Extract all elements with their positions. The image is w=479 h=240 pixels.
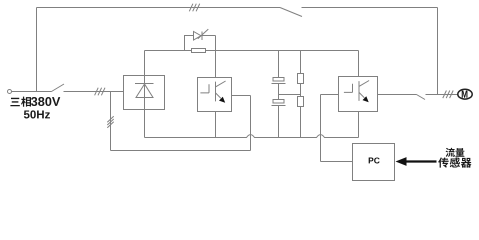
wire: capacitor branch top — [278, 51, 280, 78]
wire: rectifier bottom drop to DC- rail — [144, 110, 146, 138]
wire: midpoint tie between branches — [279, 94, 301, 96]
rectifier U1 diode symbol — [135, 76, 154, 110]
wire: resistor branch top — [300, 51, 302, 74]
wire: rectifier top riser to DC+ rail — [144, 51, 146, 76]
IGBT symbol V2 — [344, 84, 353, 93]
wire: switch to rectifier input — [64, 91, 124, 93]
wire: capacitor branch bottom — [278, 106, 280, 138]
terminal: three-phase source — [8, 90, 12, 94]
IGBT symbol V1 — [200, 84, 209, 93]
wire: bypass top rail right — [302, 7, 438, 9]
wire: V1 bottom to DC- rail — [215, 112, 217, 138]
three-phase marker on return drop — [107, 116, 113, 122]
switch QS1 blade (input) — [52, 84, 65, 92]
wire: drop to chopper V1 top — [215, 51, 217, 78]
wire: V2 gate line from PC — [321, 95, 353, 162]
resistor R2 — [298, 74, 304, 84]
inverter V2 box — [339, 77, 378, 112]
wire: resistor branch middle — [300, 84, 302, 97]
wire: inverter output — [378, 94, 417, 96]
switch QS2 blade (bypass) — [280, 8, 302, 17]
controller PC box — [353, 144, 395, 181]
chopper V1 box — [198, 78, 232, 112]
wire: chopper output stub — [232, 95, 251, 97]
wire: bypass riser — [36, 8, 38, 92]
switch QS3 blade (motor) — [417, 95, 426, 100]
resistor R1 (precharge, in-line) — [192, 49, 206, 53]
wire: return drop from input junction — [110, 92, 112, 151]
capacitor C2 — [273, 100, 284, 104]
capacitor C1 — [273, 78, 284, 82]
wire: DC+ rail left segment — [145, 50, 192, 52]
wire: DC- rail with crossover hops — [145, 135, 359, 138]
wire: source to input switch — [12, 91, 52, 93]
wire: riser to chopper output — [250, 96, 252, 151]
wire: DC- rail riser to inverter V2 bottom — [358, 112, 360, 138]
thyristor VT1 — [194, 29, 209, 40]
rectifier U1 box — [124, 76, 165, 110]
wire: capacitor branch middle — [278, 84, 280, 100]
label: 三相380V — [10, 98, 19, 106]
label: 50Hz — [24, 110, 30, 118]
wire: bypass top rail left — [37, 7, 281, 9]
wire: resistor branch bottom — [300, 107, 302, 138]
wire: switch to motor — [426, 94, 458, 96]
wire: DC+ rail drop to inverter V2 top — [358, 51, 360, 77]
label PC — [369, 158, 374, 164]
three-phase marker on input wire — [95, 88, 99, 96]
wire: DC+ rail right segment — [206, 50, 359, 52]
wire: bottom return run — [111, 150, 251, 152]
label: 流量 — [446, 148, 455, 157]
resistor R3 — [298, 97, 304, 107]
label M — [462, 91, 468, 98]
wire: thyristor branch left stub — [185, 36, 194, 51]
motor M circle — [458, 89, 472, 99]
three-phase marker at motor — [443, 91, 447, 99]
wire: thyristor branch right stub — [202, 36, 216, 51]
label: 传感器 — [438, 157, 448, 167]
three-phase marker on bypass rail — [189, 4, 193, 12]
wire: bypass drop to motor line — [437, 8, 439, 95]
arrow: flow sensor signal into PC — [406, 160, 437, 162]
